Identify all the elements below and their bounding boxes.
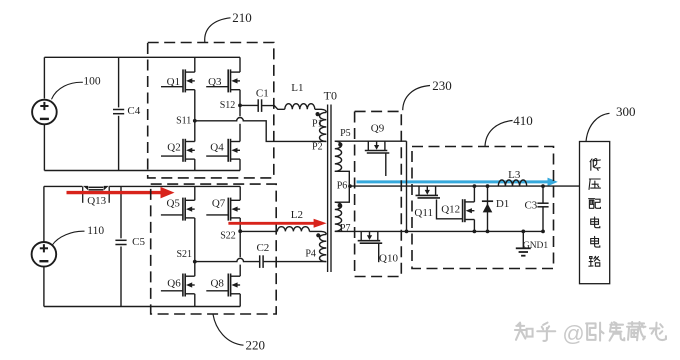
svg-text:P7: P7 — [340, 223, 351, 234]
wire C5 bottom — [120, 247, 122, 307]
transistor Q4 — [206, 139, 240, 162]
winding P1-P2 primary 1 — [319, 112, 326, 141]
transistor Q5 — [161, 198, 195, 221]
wire Q8 source — [239, 294, 241, 307]
svg-text:210: 210 — [232, 10, 252, 25]
svg-text:220: 220 — [246, 337, 266, 352]
wire C4 bottom — [118, 116, 120, 171]
leader line 230 — [403, 86, 430, 111]
junction C3 bottom — [541, 230, 545, 234]
wire top rail of upper bridge — [44, 56, 240, 58]
capacitor C1 — [257, 99, 259, 112]
svg-text:C4: C4 — [127, 105, 140, 117]
leader line 410 — [485, 121, 513, 147]
node S12 — [238, 104, 242, 108]
svg-text:Q1: Q1 — [167, 76, 180, 88]
wire C1 to L1 — [262, 106, 285, 110]
wire Q5 drain — [194, 186, 196, 200]
transistor Q10 — [358, 231, 383, 262]
svg-text:L1: L1 — [291, 82, 303, 94]
wire P6 output line to box 300 — [350, 185, 580, 187]
dashed box 210 — [148, 43, 274, 178]
wire Q12 drain — [473, 186, 475, 202]
transistor Q11 — [416, 186, 441, 198]
wire bottom rail of box 410 — [407, 230, 544, 232]
node S22 — [238, 229, 242, 233]
junction C3 top — [541, 184, 545, 188]
wire Q1 source to S11 — [194, 90, 196, 121]
dashed box 220 — [151, 184, 277, 314]
wire C3 bottom — [542, 207, 544, 232]
svg-text:D1: D1 — [496, 198, 509, 210]
svg-text:S12: S12 — [220, 100, 236, 111]
red current arrow 1 — [67, 191, 163, 194]
wire Q11 gate to Q12 gate — [437, 200, 463, 219]
svg-text:P2: P2 — [312, 142, 323, 153]
leader line 100 — [52, 82, 83, 99]
svg-text:C3: C3 — [524, 200, 537, 212]
svg-text:P1: P1 — [312, 119, 323, 130]
transistor Q12 — [463, 199, 475, 222]
wire Q7 source to S22 — [239, 218, 241, 231]
svg-text:C1: C1 — [256, 87, 269, 99]
junction Q12 drain node — [473, 184, 477, 188]
inductor L3 — [498, 180, 526, 186]
wire L2 to P3 — [309, 231, 326, 234]
box 300 low voltage distribution — [580, 142, 610, 284]
svg-text:Q5: Q5 — [166, 198, 180, 210]
wire Q4 source — [239, 159, 241, 170]
wire S11 to P2 with hop — [195, 117, 326, 141]
wire Q9 corner down to rail — [406, 141, 408, 231]
wire bottom rail of upper bridge — [44, 170, 240, 172]
wire left upper — [43, 57, 45, 98]
svg-text:Q9: Q9 — [371, 122, 385, 134]
svg-text:L3: L3 — [508, 169, 521, 181]
transistor Q9 — [365, 141, 390, 176]
wire Q2 source — [194, 159, 196, 170]
wire S22 to L2 — [240, 230, 277, 232]
svg-text:Q11: Q11 — [414, 207, 433, 219]
dashed box 230 — [355, 111, 402, 276]
transistor Q6 — [161, 274, 195, 297]
wire lower top rail right of Q13 — [109, 185, 240, 187]
dashed box 410 — [412, 147, 554, 269]
node S21 — [193, 260, 197, 264]
wire hop to Q4 drain — [239, 124, 241, 142]
wire lower top rail left of Q13 — [44, 185, 82, 187]
wire S12 to C1 — [240, 104, 258, 106]
wire Q12 source — [473, 220, 475, 232]
svg-text:Q6: Q6 — [167, 278, 181, 290]
wire Q6 source — [194, 294, 196, 307]
watermark zhihu — [515, 323, 533, 340]
voltage source 100 — [32, 100, 57, 125]
voltage source 110 — [32, 242, 57, 267]
svg-text:P6: P6 — [337, 181, 348, 192]
wire lower left upper — [43, 186, 45, 241]
wire Q7 drain — [239, 186, 241, 200]
capacitor C3 — [537, 202, 548, 204]
phase dot P5 winding — [338, 143, 342, 147]
wire L1 to P1 — [315, 109, 327, 112]
transistor Q2 — [161, 139, 195, 162]
phase dot P3 — [316, 233, 320, 237]
wire lower bottom rail — [44, 306, 240, 308]
transformer core line 1 — [327, 105, 329, 273]
svg-text:Q2: Q2 — [167, 141, 180, 153]
transistor Q8 — [206, 274, 240, 297]
wire S11 to Q2 drain — [194, 121, 196, 142]
wire hop to Q8 drain — [239, 265, 241, 277]
leader line 300 — [586, 113, 610, 141]
wire C5 top — [120, 186, 122, 238]
wire center tap P6 — [335, 171, 350, 202]
svg-text:110: 110 — [87, 225, 104, 237]
node S11 — [193, 119, 197, 123]
svg-text:P4: P4 — [305, 248, 316, 259]
wire Q1 drain — [194, 57, 196, 72]
transistor Q13 — [83, 186, 110, 203]
transistor Q3 — [206, 69, 240, 92]
svg-text:100: 100 — [83, 76, 101, 88]
leader line 220 — [213, 314, 244, 345]
svg-text:L2: L2 — [291, 209, 303, 221]
svg-text:Q3: Q3 — [208, 76, 222, 88]
text low voltage distribution circuit — [590, 159, 600, 171]
junction rectifier output — [405, 230, 409, 234]
junction Q12 source node — [473, 230, 477, 234]
wire S21 to C2 with hop — [195, 258, 259, 261]
wire S12 down to hop — [239, 105, 241, 116]
transformer core line 2 — [330, 105, 332, 273]
svg-text:S22: S22 — [220, 231, 236, 242]
wire P7 to Q10 to rail — [335, 230, 407, 232]
diode D1 — [482, 186, 493, 231]
winding P5-P6 secondary 1 — [335, 141, 342, 171]
phase dot P1 — [316, 112, 320, 116]
capacitor C4 — [113, 109, 124, 111]
svg-text:S21: S21 — [176, 249, 192, 260]
wire Q3 drain — [239, 57, 241, 72]
svg-text:C5: C5 — [132, 236, 145, 248]
transistor Q1 — [161, 69, 195, 92]
svg-text:C2: C2 — [256, 242, 269, 254]
svg-text:Q4: Q4 — [210, 141, 224, 153]
capacitor C5 — [115, 239, 126, 241]
wire left lower — [43, 124, 45, 171]
inductor L2 — [277, 227, 309, 232]
capacitor C2 — [259, 255, 261, 268]
svg-text:P5: P5 — [340, 128, 351, 139]
wire S22 down to hop — [239, 231, 241, 257]
leader line 210 — [205, 18, 231, 43]
svg-text:Q8: Q8 — [210, 278, 224, 290]
svg-text:410: 410 — [513, 113, 533, 128]
svg-text:Q12: Q12 — [441, 203, 460, 215]
phase dot P7 winding — [338, 204, 342, 208]
svg-text:@: @ — [562, 321, 584, 346]
junction D1 cathode — [486, 184, 490, 188]
svg-text:Q10: Q10 — [379, 252, 398, 264]
winding P3-P4 primary 2 — [320, 234, 327, 261]
wire P5 to Q9 to corner — [335, 140, 407, 142]
wire Q5 source to S21 — [194, 218, 196, 262]
svg-text:230: 230 — [432, 78, 452, 93]
svg-text:S11: S11 — [176, 116, 191, 127]
blue current arrow — [357, 180, 550, 183]
junction D1 anode — [486, 230, 490, 234]
junction ground tap — [521, 230, 525, 234]
svg-text:GND1: GND1 — [523, 241, 549, 251]
winding P6-P7 secondary 2 — [335, 202, 342, 231]
svg-text:300: 300 — [616, 104, 636, 119]
node P6 — [348, 184, 352, 188]
inductor L1 — [285, 104, 315, 110]
transistor Q7 — [206, 198, 240, 221]
wire S21 to Q6 drain — [194, 262, 196, 277]
wire C3 top — [542, 186, 544, 203]
red current arrow 2 — [228, 222, 315, 225]
svg-text:Q13: Q13 — [87, 195, 106, 207]
leader line 110 — [52, 231, 84, 245]
wire C4 top — [118, 57, 120, 107]
ground GND1 — [516, 231, 531, 255]
wire Q3 source to S12 — [239, 90, 241, 106]
svg-text:Q7: Q7 — [212, 198, 226, 210]
wire C2 to P4 — [264, 261, 327, 263]
svg-text:T0: T0 — [324, 88, 337, 102]
wire lower left bottom — [43, 267, 45, 307]
